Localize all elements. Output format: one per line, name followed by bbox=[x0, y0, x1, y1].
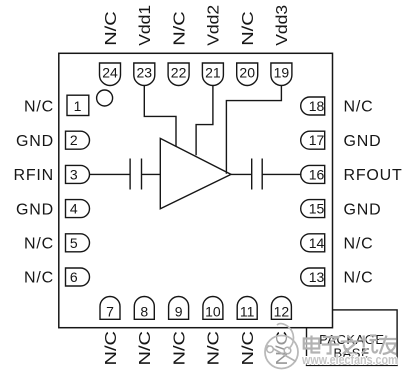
wire Vdd2 pin 21 to amplifier bbox=[196, 86, 213, 156]
svg-text:RFOUT: RFOUT bbox=[344, 167, 403, 184]
svg-text:12: 12 bbox=[274, 303, 290, 319]
pin 9 bbox=[169, 297, 189, 320]
svg-text:N/C: N/C bbox=[24, 270, 54, 287]
svg-text:GND: GND bbox=[344, 133, 382, 150]
pin 23 bbox=[134, 63, 155, 85]
pin 7 bbox=[100, 297, 120, 320]
pin 18 bbox=[301, 97, 325, 115]
svg-text:N/C: N/C bbox=[137, 331, 154, 366]
wire Vdd3 pin 19 to amplifier output node bbox=[226, 86, 281, 174]
svg-text:N/C: N/C bbox=[240, 331, 257, 366]
pin 8 bbox=[134, 297, 154, 320]
capacitor C1 input DC block bbox=[130, 159, 141, 190]
svg-text:N/C: N/C bbox=[344, 99, 374, 116]
pin 14 bbox=[301, 234, 325, 252]
svg-text:15: 15 bbox=[309, 201, 325, 217]
pin 19 bbox=[271, 63, 292, 85]
svg-text:24: 24 bbox=[102, 65, 118, 81]
svg-text:GND: GND bbox=[16, 201, 54, 218]
pin 20 bbox=[237, 63, 258, 86]
svg-text:N/C: N/C bbox=[171, 11, 188, 46]
pin 17 bbox=[301, 131, 325, 149]
pin 3 bbox=[66, 165, 90, 183]
capacitor C2 output DC block bbox=[252, 159, 263, 190]
svg-text:N/C: N/C bbox=[240, 11, 257, 46]
svg-text:16: 16 bbox=[309, 166, 325, 182]
wire RFIN pin 3 to input capacitor bbox=[90, 173, 130, 175]
svg-text:N/C: N/C bbox=[24, 99, 54, 116]
watermark logo circle bbox=[265, 324, 298, 369]
pin 2 bbox=[66, 131, 90, 149]
pin 15 bbox=[301, 200, 325, 218]
svg-text:7: 7 bbox=[106, 303, 114, 319]
pin 5 bbox=[66, 234, 90, 252]
svg-text:Vdd1: Vdd1 bbox=[137, 5, 154, 46]
amplifier U1 (triangle) bbox=[160, 138, 231, 208]
pin 24 bbox=[100, 63, 121, 85]
svg-text:4: 4 bbox=[70, 201, 78, 217]
IC body outline bbox=[59, 53, 333, 327]
svg-text:22: 22 bbox=[171, 65, 187, 81]
svg-text:GND: GND bbox=[344, 201, 382, 218]
pin-1 indicator dot bbox=[97, 90, 113, 106]
svg-text:23: 23 bbox=[137, 65, 153, 81]
svg-text:6: 6 bbox=[70, 269, 78, 285]
svg-text:21: 21 bbox=[205, 65, 221, 81]
pin 21 bbox=[202, 63, 223, 85]
svg-text:9: 9 bbox=[175, 303, 183, 319]
svg-text:20: 20 bbox=[239, 65, 255, 81]
svg-text:N/C: N/C bbox=[171, 331, 188, 366]
svg-text:2: 2 bbox=[70, 132, 78, 148]
svg-text:GND: GND bbox=[16, 133, 54, 150]
svg-text:N/C: N/C bbox=[344, 236, 374, 253]
package base label bbox=[319, 332, 384, 360]
svg-text:3: 3 bbox=[70, 166, 78, 182]
svg-text:N/C: N/C bbox=[103, 331, 120, 366]
svg-text:14: 14 bbox=[309, 235, 325, 251]
svg-text:13: 13 bbox=[309, 269, 325, 285]
svg-text:RFIN: RFIN bbox=[13, 167, 54, 184]
pin 11 bbox=[237, 297, 257, 320]
svg-text:11: 11 bbox=[240, 303, 255, 319]
svg-text:N/C: N/C bbox=[103, 11, 120, 46]
svg-text:19: 19 bbox=[274, 65, 290, 81]
pin 13 bbox=[301, 268, 325, 286]
pin 12 bbox=[271, 297, 291, 320]
pin 16 bbox=[301, 165, 325, 183]
svg-text:18: 18 bbox=[309, 98, 325, 114]
pin 22 bbox=[168, 63, 189, 85]
svg-text:Vdd2: Vdd2 bbox=[206, 5, 223, 46]
pin 4 bbox=[66, 200, 90, 218]
svg-text:N/C: N/C bbox=[206, 331, 223, 366]
wire Vdd1 pin 23 to amplifier bbox=[144, 86, 176, 147]
pin 10 bbox=[203, 297, 223, 320]
svg-text:17: 17 bbox=[309, 132, 325, 148]
pin 6 bbox=[66, 268, 90, 286]
svg-text:N/C: N/C bbox=[344, 270, 374, 287]
svg-text:1: 1 bbox=[74, 98, 82, 114]
wire input capacitor to amplifier input bbox=[142, 173, 161, 175]
svg-text:www.elecfans.com: www.elecfans.com bbox=[301, 352, 397, 367]
pin 1 bbox=[67, 95, 89, 115]
svg-text:Vdd3: Vdd3 bbox=[274, 5, 291, 46]
svg-text:N/C: N/C bbox=[24, 236, 54, 253]
svg-text:5: 5 bbox=[70, 235, 78, 251]
svg-text:10: 10 bbox=[205, 303, 221, 319]
wire output capacitor to RFOUT pin 16 bbox=[262, 173, 301, 175]
package base box bbox=[307, 310, 398, 366]
svg-text:8: 8 bbox=[140, 303, 148, 319]
wire amplifier output to output capacitor bbox=[231, 173, 252, 175]
watermark text 电子发烧友 bbox=[304, 336, 397, 355]
